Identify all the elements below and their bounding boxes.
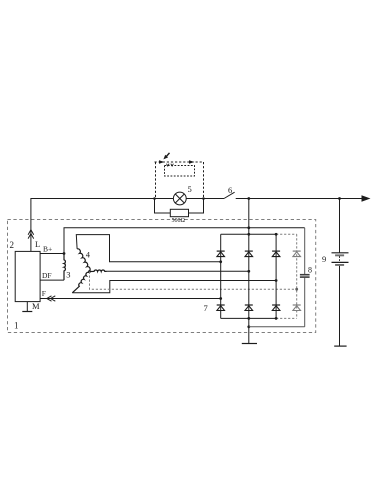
indicator lamp dashed enclosure — [155, 162, 204, 199]
node: phase W at column 3 — [275, 279, 278, 282]
svg-text:L: L — [35, 239, 40, 249]
terminal M stub — [26, 302, 28, 312]
wire: B+ output drop from main line to top bus — [248, 199, 250, 235]
ground (regulator M) — [22, 311, 32, 313]
svg-text:5: 5 — [188, 184, 192, 194]
diode D3 (top, column 3) — [272, 251, 280, 257]
switch 6 (ignition) — [224, 192, 235, 198]
rectifier top bus dashed extension — [276, 233, 297, 235]
regulator 2 (box) — [15, 251, 40, 301]
wire: phase W loop to diode column 3 — [72, 281, 276, 293]
arrowhead on dashed edge (left) — [159, 160, 165, 164]
field winding 3 (coil between B+ and DF) — [64, 254, 65, 281]
diode D2 (top, column 2) — [245, 251, 253, 257]
svg-text:2: 2 — [10, 240, 15, 250]
svg-text:DF: DF — [42, 271, 52, 280]
wire: ground drop from bottom bus — [248, 318, 250, 343]
node: top bus at column 3 — [275, 233, 278, 236]
wire: parallel resistor loop — [155, 199, 204, 214]
diode D4 (top, column 4, auxiliary grey) — [293, 251, 301, 257]
svg-text:9: 9 — [322, 254, 326, 264]
wire: battery negative lead — [339, 266, 341, 346]
svg-text:8: 8 — [308, 266, 312, 275]
svg-text:1: 1 — [14, 321, 19, 331]
svg-text:M: M — [32, 301, 40, 311]
node: top bus at column 2 — [247, 233, 250, 236]
node: F line at column 1 — [219, 297, 222, 300]
svg-text:500Ω: 500Ω — [172, 218, 186, 224]
wire: diode column 1 vertical — [220, 234, 222, 318]
svg-text:3: 3 — [66, 270, 70, 280]
capacitor 8 loop wires — [249, 228, 305, 327]
stator winding 4 : upper coil — [77, 249, 90, 272]
wire: DF stub from regulator — [40, 279, 64, 281]
wire: B+ stub from regulator — [40, 253, 64, 255]
diode D5 (bottom, column 1) — [217, 305, 225, 311]
inner dashed box (lamp module) — [165, 166, 195, 177]
wire: switch to battery tap and arrow end — [236, 198, 365, 200]
wire: neutral (dashed) from star centre to auxiliary diodes — [90, 272, 297, 290]
resistor 500 ohm — [170, 209, 188, 216]
wire: lamp to switch — [204, 198, 224, 200]
node: phase V at column 2 — [247, 270, 250, 273]
battery 9 — [332, 253, 349, 266]
wire: F line from regulator to diode column 1 — [40, 298, 221, 300]
wire: diode column 2 vertical — [248, 234, 250, 318]
svg-text:6: 6 — [228, 185, 232, 195]
svg-text:B+: B+ — [43, 245, 52, 254]
stator winding 4 : lower coil (phase W) — [72, 272, 89, 293]
rectifier bottom bus — [221, 317, 276, 319]
svg-text:F: F — [42, 289, 46, 298]
diode D7 (bottom, column 3) — [272, 305, 280, 311]
node: B+ junction — [63, 252, 66, 255]
diode D1 (top, column 1) — [217, 251, 225, 257]
capacitor 8 plates — [300, 275, 310, 277]
wire: battery drop from main line — [339, 199, 341, 253]
node: bottom bus at column 2 — [247, 317, 250, 320]
arrowhead on dashed edge (right) — [189, 160, 195, 164]
node: loop left — [153, 197, 156, 200]
wire: main B+ line from L drop to arrow — [31, 199, 155, 252]
wire: diode column 4 vertical (dashed) — [296, 234, 298, 318]
wire: through the lamp — [155, 198, 204, 200]
node: battery tap on main line — [338, 197, 341, 200]
ground (battery) — [334, 345, 346, 347]
rectifier top bus — [221, 233, 276, 235]
diode D8 (bottom, column 4, auxiliary grey) — [293, 305, 301, 311]
node: B+ rail / output drop junction — [247, 226, 250, 229]
svg-text:7: 7 — [204, 303, 208, 313]
node: bottom bus at column 3 — [275, 317, 278, 320]
stator winding 4 : right coil (phase V) — [90, 270, 107, 271]
node: capacitor return junction — [247, 325, 250, 328]
node: phase U at column 1 — [219, 260, 222, 263]
svg-text:4: 4 — [86, 250, 91, 260]
node: main line tap — [247, 197, 250, 200]
wire: phase V to diode column 2 — [107, 270, 249, 272]
wire: diode column 3 vertical — [275, 234, 277, 318]
arrowhead at right end of main wire — [362, 195, 371, 201]
diode D6 (bottom, column 2) — [245, 305, 253, 311]
connector arrow (double chevron left) on F wire — [47, 296, 56, 301]
stator winding 4 : phase U outline to diode column 1 — [76, 235, 220, 262]
node: neutral at column 4 — [295, 288, 298, 291]
charge indicator lamp 5 — [173, 192, 186, 205]
wire: B+ rail up and across to capacitor — [64, 228, 305, 254]
node: loop right — [202, 197, 205, 200]
rectifier bottom bus dashed extension — [276, 317, 297, 319]
ground (rectifier) — [242, 343, 257, 345]
generator housing dashed box 1 — [8, 220, 316, 333]
node: star centre — [88, 270, 91, 273]
small diagonal arrow mark — [163, 153, 169, 160]
tick marks under dashed edge — [167, 164, 174, 166]
connector arrow (double chevron up) on L wire — [28, 230, 34, 239]
